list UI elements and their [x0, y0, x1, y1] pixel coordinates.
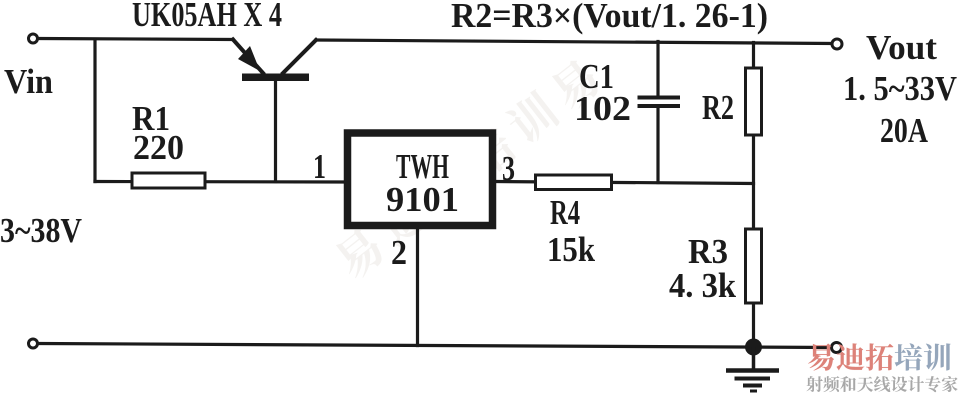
- wire: C1 bottom lead: [656, 107, 659, 183]
- svg-text:20A: 20A: [880, 111, 929, 150]
- svg-text:220: 220: [133, 128, 184, 167]
- transistor Q1 emitter arrow (PNP): [238, 46, 260, 71]
- wire: TWH pin 3 row to R2/R3 node: [496, 182, 753, 184]
- wire: top rail right (Q collector to Vout): [316, 40, 833, 44]
- ground junction dot: [745, 339, 762, 356]
- svg-text:2: 2: [391, 233, 407, 272]
- wire: R1 row from left branch to TWH pin 1: [95, 180, 344, 184]
- svg-text:3: 3: [502, 149, 515, 188]
- watermark: site name red part: [808, 343, 893, 370]
- ground symbol: [726, 347, 779, 391]
- svg-text:R4: R4: [550, 193, 580, 232]
- wire: R2 bottom lead to node: [752, 135, 755, 184]
- wire: left branch down to R1: [93, 40, 96, 182]
- resistor R2 body: [746, 68, 762, 135]
- input terminal Vin: [29, 34, 38, 43]
- svg-text:1: 1: [313, 147, 326, 186]
- svg-text:15k: 15k: [547, 230, 595, 269]
- svg-text:UK05AH X 4: UK05AH X 4: [132, 0, 282, 34]
- svg-text:3~38V: 3~38V: [0, 211, 82, 250]
- svg-text:102: 102: [574, 89, 631, 128]
- svg-text:4. 3k: 4. 3k: [669, 266, 736, 305]
- faint diagonal site watermark: [330, 224, 389, 283]
- wire: top rail left (Vin to Q emitter): [38, 39, 233, 40]
- transistor Q1 collector lead: [283, 40, 316, 73]
- IC U1 TWH9101 box: [348, 133, 493, 226]
- svg-text:1. 5~33V: 1. 5~33V: [843, 69, 957, 108]
- wire: TWH pin 2 down to bottom rail: [416, 229, 419, 346]
- svg-text:9101: 9101: [386, 180, 459, 219]
- output terminal Vout: [832, 39, 842, 49]
- transistor Q1 base bar: [242, 74, 309, 82]
- svg-text:R2=R3×(Vout/1. 26-1): R2=R3×(Vout/1. 26-1): [451, 0, 768, 35]
- wire: C1 top lead: [656, 42, 659, 96]
- capacitor C1 plates: [638, 98, 681, 107]
- resistor R1 body: [132, 173, 205, 188]
- wire: R2 top lead: [752, 43, 755, 69]
- bottom-right terminal: [832, 343, 842, 353]
- svg-text:R2: R2: [702, 88, 734, 127]
- resistor R4 body: [536, 175, 612, 190]
- wire: Q1 base down to R1 row: [274, 80, 277, 182]
- wire: bottom rail: [38, 344, 831, 348]
- transistor Q1 UK05AH emitter lead: [233, 40, 263, 74]
- svg-text:Vout: Vout: [866, 28, 937, 67]
- svg-text:Vin: Vin: [4, 62, 53, 101]
- resistor R3 body: [746, 229, 762, 303]
- bottom-left terminal: [29, 339, 38, 348]
- wire: node down to R3: [752, 184, 755, 230]
- watermark: tagline: [806, 376, 957, 392]
- wire: R3 bottom to ground node: [752, 303, 755, 347]
- watermark: site name blue part: [895, 343, 951, 370]
